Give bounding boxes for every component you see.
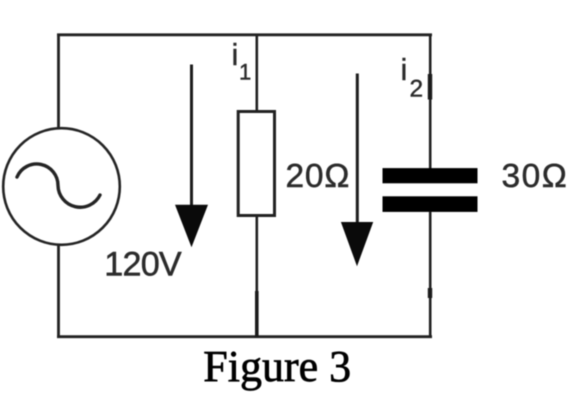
resistor R 20ohm [238,112,274,216]
capacitor C 30ohm top plate [383,168,478,183]
svg-text:120V: 120V [104,245,182,283]
svg-text:2: 2 [410,76,424,103]
svg-text:20Ω: 20Ω [286,158,351,195]
svg-text:i: i [232,37,239,72]
svg-text:30Ω: 30Ω [502,158,569,195]
sine wave [17,164,100,207]
capacitor C 30ohm bottom plate [383,196,478,212]
svg-text:i: i [401,52,408,87]
wire middle lower [255,216,258,339]
wire left upper [57,34,60,129]
AC source V1 [3,128,120,245]
label i1 [232,37,252,85]
wire bottom [57,335,432,338]
current arrow i2 head [341,222,373,266]
wire middle lower thick segment [255,291,259,337]
current arrow i1 shaft [190,65,193,209]
wire right lower thick segment [428,288,432,298]
wire top [57,33,432,36]
wire middle upper [255,34,258,113]
wire right upper thick segment [428,74,432,100]
svg-text:Figure 3: Figure 3 [203,342,351,391]
label i2 [401,52,424,103]
wire right upper [429,34,432,169]
wire left lower [57,245,60,338]
wire right lower [429,212,432,339]
svg-text:1: 1 [239,60,251,85]
current arrow i1 head [175,205,208,248]
current arrow i2 shaft [356,74,359,225]
